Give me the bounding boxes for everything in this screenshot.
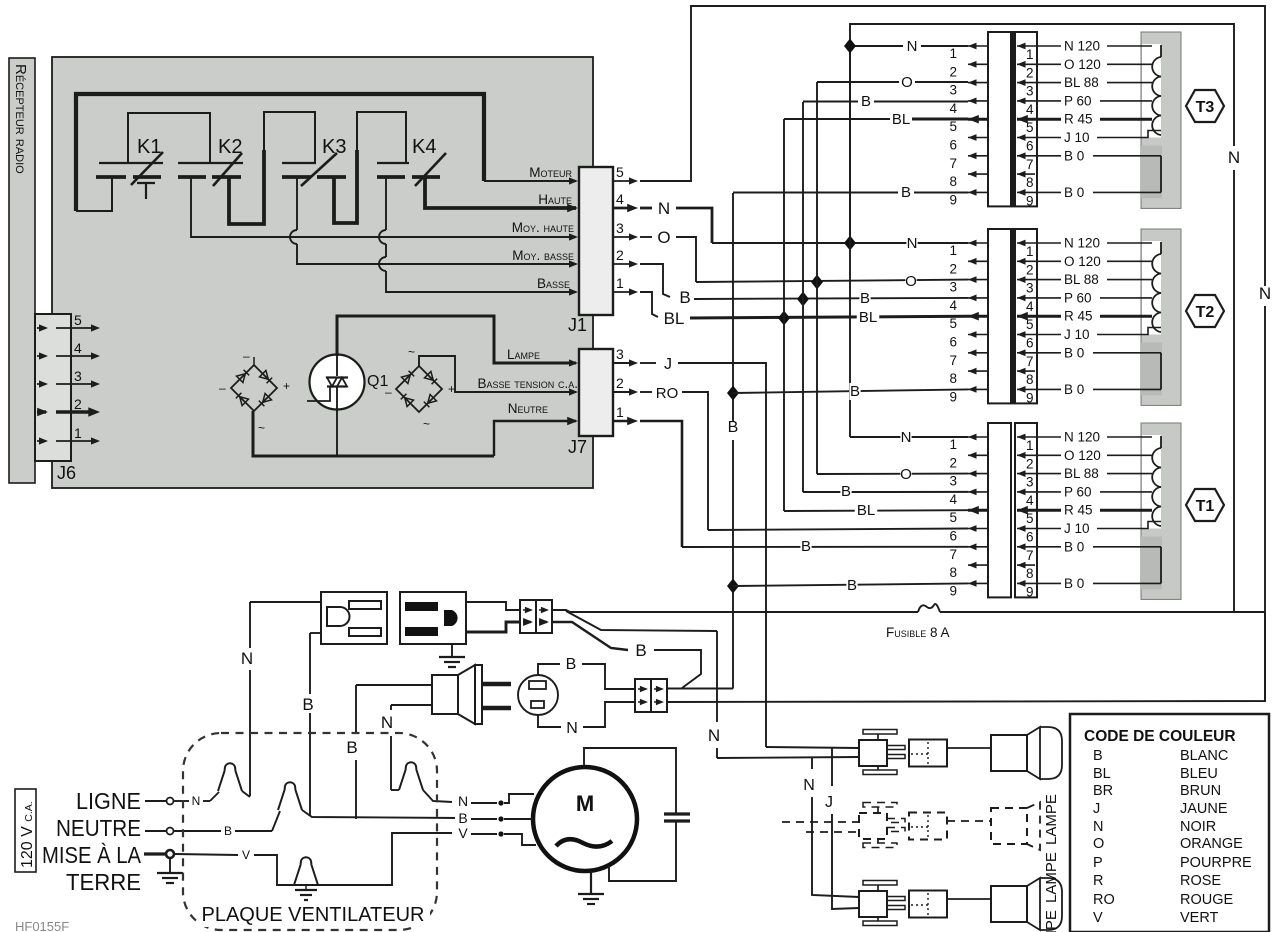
svg-text:B 0: B 0 xyxy=(1064,576,1084,591)
svg-text:5: 5 xyxy=(1026,120,1034,135)
svg-text:Lampe: Lampe xyxy=(507,347,540,362)
svg-text:2: 2 xyxy=(949,261,957,276)
svg-text:1: 1 xyxy=(1026,244,1034,259)
svg-text:B: B xyxy=(635,641,646,660)
svg-text:J7: J7 xyxy=(568,437,587,457)
svg-text:Basse tension c.a.: Basse tension c.a. xyxy=(477,376,578,391)
svg-text:BL: BL xyxy=(892,111,910,128)
svg-text:ROSE: ROSE xyxy=(1180,873,1221,889)
svg-text:B 0: B 0 xyxy=(1064,382,1084,397)
svg-text:J 10: J 10 xyxy=(1064,521,1090,536)
svg-text:NEUTRE: NEUTRE xyxy=(56,815,141,841)
svg-text:ROUGE: ROUGE xyxy=(1180,892,1234,908)
svg-text:5: 5 xyxy=(949,510,957,525)
svg-text:5: 5 xyxy=(1026,511,1034,526)
svg-text:BL 88: BL 88 xyxy=(1064,466,1099,481)
svg-text:T1: T1 xyxy=(1196,498,1215,515)
svg-text:Basse: Basse xyxy=(537,276,570,291)
svg-text:2: 2 xyxy=(616,247,624,263)
svg-text:B 0: B 0 xyxy=(1064,185,1084,200)
svg-text:9: 9 xyxy=(949,389,957,404)
svg-text:N: N xyxy=(1259,284,1271,303)
svg-text:B: B xyxy=(302,695,313,714)
svg-text:7: 7 xyxy=(949,353,957,368)
svg-text:1: 1 xyxy=(949,243,957,258)
svg-text:N: N xyxy=(381,713,393,732)
svg-text:LAMPE: LAMPE xyxy=(1043,852,1060,903)
svg-text:4: 4 xyxy=(949,298,957,313)
svg-text:B: B xyxy=(1093,748,1103,764)
svg-text:3: 3 xyxy=(616,220,624,236)
svg-text:R 45: R 45 xyxy=(1064,503,1093,518)
svg-text:7: 7 xyxy=(949,156,957,171)
svg-text:RO: RO xyxy=(656,385,679,402)
svg-text:6: 6 xyxy=(1026,530,1034,545)
svg-text:BLANC: BLANC xyxy=(1180,748,1228,764)
svg-text:4: 4 xyxy=(1026,299,1034,314)
svg-text:B: B xyxy=(901,184,911,201)
svg-text:B: B xyxy=(861,93,871,110)
svg-text:~: ~ xyxy=(408,345,415,359)
svg-text:5: 5 xyxy=(949,316,957,331)
svg-text:8: 8 xyxy=(1026,372,1034,387)
svg-text:LAMPE: LAMPE xyxy=(1043,910,1060,932)
svg-text:O: O xyxy=(1093,836,1104,852)
svg-text:8: 8 xyxy=(1026,175,1034,190)
svg-text:B: B xyxy=(728,419,739,436)
svg-text:1: 1 xyxy=(616,404,624,420)
svg-text:3: 3 xyxy=(949,280,957,295)
svg-text:7: 7 xyxy=(1026,354,1034,369)
svg-text:2: 2 xyxy=(74,396,82,412)
svg-text:2: 2 xyxy=(949,455,957,470)
svg-text:2: 2 xyxy=(949,64,957,79)
svg-text:HF0155F: HF0155F xyxy=(15,919,69,932)
svg-text:B: B xyxy=(679,288,690,307)
svg-text:+: + xyxy=(448,382,455,396)
svg-text:4: 4 xyxy=(74,340,82,356)
svg-text:5: 5 xyxy=(1026,317,1034,332)
svg-text:1: 1 xyxy=(616,275,624,291)
svg-text:4: 4 xyxy=(949,492,957,507)
svg-text:J: J xyxy=(664,356,672,373)
svg-text:4: 4 xyxy=(949,101,957,116)
svg-text:4: 4 xyxy=(1026,102,1034,117)
svg-text:3: 3 xyxy=(1026,281,1034,296)
svg-text:N: N xyxy=(901,429,912,446)
svg-text:3: 3 xyxy=(1026,84,1034,99)
svg-text:T3: T3 xyxy=(1196,99,1215,116)
svg-text:P 60: P 60 xyxy=(1064,290,1092,305)
svg-text:B: B xyxy=(860,290,870,307)
svg-text:N 120: N 120 xyxy=(1064,39,1100,54)
svg-text:9: 9 xyxy=(1026,193,1034,208)
svg-text:P 60: P 60 xyxy=(1064,93,1092,108)
svg-text:J1: J1 xyxy=(568,315,587,335)
svg-text:8: 8 xyxy=(949,174,957,189)
svg-text:6: 6 xyxy=(1026,336,1034,351)
svg-text:P: P xyxy=(1093,855,1103,871)
svg-text:+: + xyxy=(283,379,290,393)
svg-text:N: N xyxy=(458,793,468,809)
svg-text:V: V xyxy=(242,848,250,862)
svg-text:M: M xyxy=(576,791,594,816)
svg-text:6: 6 xyxy=(1026,139,1034,154)
svg-text:Moy. haute: Moy. haute xyxy=(512,220,574,235)
svg-text:PLAQUE VENTILATEUR: PLAQUE VENTILATEUR xyxy=(201,904,424,926)
svg-text:O: O xyxy=(905,273,917,290)
svg-text:N 120: N 120 xyxy=(1064,236,1100,251)
svg-text:7: 7 xyxy=(1026,548,1034,563)
svg-text:N: N xyxy=(658,199,670,218)
svg-text:9: 9 xyxy=(1026,584,1034,599)
svg-text:BL: BL xyxy=(859,309,877,326)
svg-text:BRUN: BRUN xyxy=(1180,783,1221,799)
svg-text:O: O xyxy=(901,74,913,91)
svg-text:5: 5 xyxy=(616,164,624,180)
svg-text:V: V xyxy=(458,825,468,841)
svg-text:1: 1 xyxy=(1026,47,1034,62)
svg-text:JAUNE: JAUNE xyxy=(1180,801,1228,817)
svg-text:6: 6 xyxy=(949,529,957,544)
svg-text:Fusible 8 A: Fusible 8 A xyxy=(886,625,950,640)
svg-text:2: 2 xyxy=(616,375,624,391)
svg-text:B: B xyxy=(850,383,860,400)
svg-text:O: O xyxy=(657,228,670,247)
svg-text:K1: K1 xyxy=(137,136,161,158)
svg-text:POURPRE: POURPRE xyxy=(1180,855,1252,871)
svg-text:BLEU: BLEU xyxy=(1180,766,1218,782)
svg-text:MISE À LA: MISE À LA xyxy=(42,842,142,868)
svg-text:~: ~ xyxy=(423,417,430,431)
svg-text:BL: BL xyxy=(1093,766,1111,782)
svg-text:3: 3 xyxy=(1026,475,1034,490)
svg-text:N: N xyxy=(1228,148,1240,167)
svg-text:K2: K2 xyxy=(218,136,242,158)
svg-text:O: O xyxy=(900,466,912,483)
svg-text:8: 8 xyxy=(949,565,957,580)
svg-text:J6: J6 xyxy=(57,463,76,483)
svg-text:Moteur: Moteur xyxy=(529,165,572,180)
svg-text:9: 9 xyxy=(949,192,957,207)
svg-text:Récepteur radio: Récepteur radio xyxy=(12,64,29,174)
svg-text:B: B xyxy=(566,656,577,673)
svg-text:~: ~ xyxy=(258,421,265,435)
svg-text:4: 4 xyxy=(616,191,624,207)
svg-text:R 45: R 45 xyxy=(1064,112,1093,127)
svg-text:N: N xyxy=(241,649,253,668)
svg-text:O 120: O 120 xyxy=(1064,254,1101,269)
svg-text:N: N xyxy=(192,794,201,808)
svg-text:BL: BL xyxy=(664,309,685,328)
svg-text:Q1: Q1 xyxy=(367,373,388,390)
svg-text:N: N xyxy=(1093,819,1103,835)
svg-text:5: 5 xyxy=(949,119,957,134)
svg-text:O 120: O 120 xyxy=(1064,57,1101,72)
svg-text:1: 1 xyxy=(1026,438,1034,453)
svg-text:3: 3 xyxy=(616,346,624,362)
svg-text:B 0: B 0 xyxy=(1064,148,1084,163)
svg-text:LIGNE: LIGNE xyxy=(76,788,141,814)
svg-text:T2: T2 xyxy=(1196,304,1215,321)
svg-text:K3: K3 xyxy=(322,136,346,158)
svg-text:Haute: Haute xyxy=(538,192,572,207)
svg-text:B 0: B 0 xyxy=(1064,539,1084,554)
svg-text:BL: BL xyxy=(857,502,875,519)
svg-text:6: 6 xyxy=(949,138,957,153)
svg-text:J: J xyxy=(825,794,833,811)
svg-text:B: B xyxy=(224,824,232,838)
svg-text:2: 2 xyxy=(1026,456,1034,471)
svg-text:N: N xyxy=(907,38,918,55)
svg-text:V: V xyxy=(1093,910,1103,926)
svg-text:N: N xyxy=(803,777,815,794)
svg-text:BL 88: BL 88 xyxy=(1064,75,1099,90)
svg-text:R: R xyxy=(1093,873,1103,889)
svg-text:9: 9 xyxy=(949,583,957,598)
svg-text:7: 7 xyxy=(1026,157,1034,172)
svg-text:BR: BR xyxy=(1093,783,1113,799)
svg-text:5: 5 xyxy=(74,312,82,328)
svg-text:Neutre: Neutre xyxy=(508,401,548,416)
svg-text:1: 1 xyxy=(74,425,82,441)
svg-text:P 60: P 60 xyxy=(1064,484,1092,499)
svg-text:3: 3 xyxy=(949,474,957,489)
svg-text:J: J xyxy=(1093,801,1100,817)
svg-text:ORANGE: ORANGE xyxy=(1180,836,1243,852)
svg-text:B: B xyxy=(841,483,851,500)
svg-text:B 0: B 0 xyxy=(1064,345,1084,360)
svg-text:RO: RO xyxy=(1093,892,1115,908)
svg-text:–: – xyxy=(243,349,250,363)
svg-text:K4: K4 xyxy=(412,136,436,158)
svg-text:NOIR: NOIR xyxy=(1180,819,1216,835)
svg-text:4: 4 xyxy=(1026,493,1034,508)
svg-text:TERRE: TERRE xyxy=(66,869,141,895)
svg-text:N 120: N 120 xyxy=(1064,430,1100,445)
svg-text:1: 1 xyxy=(949,46,957,61)
svg-text:N: N xyxy=(566,720,578,737)
svg-text:7: 7 xyxy=(949,547,957,562)
svg-text:1: 1 xyxy=(949,437,957,452)
svg-text:B: B xyxy=(801,538,811,555)
svg-text:Moy. basse: Moy. basse xyxy=(512,248,574,263)
svg-text:8: 8 xyxy=(949,371,957,386)
svg-text:2: 2 xyxy=(1026,262,1034,277)
svg-text:8: 8 xyxy=(1026,566,1034,581)
svg-text:B: B xyxy=(346,738,357,757)
svg-text:B: B xyxy=(458,810,467,826)
svg-text:6: 6 xyxy=(949,335,957,350)
svg-text:LAMPE: LAMPE xyxy=(1043,794,1060,845)
svg-text:O 120: O 120 xyxy=(1064,448,1101,463)
svg-text:2: 2 xyxy=(1026,65,1034,80)
svg-text:–: – xyxy=(219,381,226,395)
svg-text:J 10: J 10 xyxy=(1064,130,1090,145)
svg-text:B: B xyxy=(847,577,857,594)
svg-text:R 45: R 45 xyxy=(1064,309,1093,324)
svg-text:9: 9 xyxy=(1026,390,1034,405)
svg-text:VERT: VERT xyxy=(1180,910,1219,926)
svg-text:BL 88: BL 88 xyxy=(1064,272,1099,287)
svg-text:N: N xyxy=(708,726,720,745)
svg-text:3: 3 xyxy=(949,83,957,98)
svg-text:CODE DE COULEUR: CODE DE COULEUR xyxy=(1084,728,1236,745)
svg-text:N: N xyxy=(907,235,918,252)
svg-text:3: 3 xyxy=(74,368,82,384)
svg-text:J 10: J 10 xyxy=(1064,327,1090,342)
